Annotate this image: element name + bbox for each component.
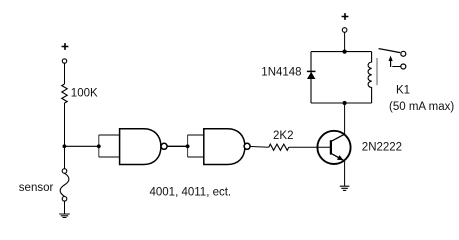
svg-text:K1: K1 [396, 85, 410, 97]
svg-text:4001, 4011, ect.: 4001, 4011, ect. [150, 187, 232, 199]
svg-text:2N2222: 2N2222 [362, 142, 402, 154]
svg-text:(50 mA max): (50 mA max) [389, 101, 454, 113]
svg-text:2K2: 2K2 [273, 130, 293, 142]
svg-text:1N4148: 1N4148 [261, 67, 301, 79]
svg-text:100K: 100K [71, 88, 98, 100]
svg-text:sensor: sensor [19, 182, 54, 194]
